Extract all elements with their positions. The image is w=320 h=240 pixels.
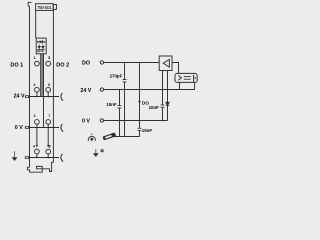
- earth arrow left: [13, 151, 16, 157]
- shield rail: [114, 136, 140, 138]
- svg-text:7: 7: [48, 114, 50, 118]
- diode dots in LED box: [37, 41, 39, 43]
- 24V power line: [29, 96, 59, 98]
- terminal 7 circle: [46, 120, 51, 125]
- LED 2: [41, 46, 45, 49]
- svg-text:10nF: 10nF: [106, 102, 117, 107]
- svg-text:24 V: 24 V: [14, 94, 25, 100]
- label tab: [53, 5, 56, 10]
- svg-text:DO: DO: [82, 61, 90, 67]
- 24V terminal: [100, 88, 103, 91]
- arrow on wire 4: [36, 145, 38, 148]
- earth circle dot: [90, 138, 93, 141]
- earth circle symbol: [88, 136, 95, 141]
- module left edge: [29, 6, 31, 167]
- svg-text:10nF: 10nF: [149, 105, 160, 110]
- legend earth arrow: [95, 149, 98, 153]
- svg-text:270pF: 270pF: [110, 73, 123, 78]
- driver pin right with diode: [167, 71, 169, 121]
- spring contact row2: [61, 93, 63, 101]
- arrow on DO output line: [138, 101, 141, 104]
- svg-text:DO 2: DO 2: [56, 62, 69, 68]
- spring contact row3: [61, 124, 63, 132]
- terminal 8 circle: [46, 149, 51, 154]
- spring contact row4: [61, 154, 63, 162]
- svg-text:4: 4: [33, 145, 35, 149]
- terminal 4 circle: [35, 149, 40, 154]
- LED indicator box: [36, 38, 46, 54]
- diode D1 in LED box: [37, 41, 45, 43]
- earth power line: [29, 157, 59, 159]
- diode triangle: [40, 40, 43, 43]
- LED 1: [37, 46, 41, 49]
- output stage box Q1: [175, 73, 197, 82]
- terminal 2 circle: [35, 87, 40, 92]
- arrow on wire 8: [47, 145, 49, 148]
- svg-text:2: 2: [34, 83, 36, 87]
- capacitor 10nF left line: [119, 90, 121, 137]
- capacitor 10nF bottom: [139, 121, 141, 137]
- terminal 1 circle: [35, 61, 40, 66]
- power jumper blade 3D: [102, 132, 116, 140]
- diode on pin: [166, 102, 169, 105]
- svg-text:0 V: 0 V: [82, 118, 90, 124]
- module right edge: [52, 9, 54, 162]
- svg-text:750-501: 750-501: [37, 5, 52, 10]
- driver pin left with 10nF cap: [162, 71, 164, 121]
- blade contact earth: [25, 156, 29, 159]
- svg-text:6: 6: [48, 83, 50, 87]
- svg-text:0 V: 0 V: [15, 125, 23, 131]
- svg-text:3: 3: [34, 114, 36, 118]
- wires 0V down with arrows: [36, 128, 38, 145]
- svg-text:DO 1: DO 1: [10, 62, 23, 68]
- svg-text:10nF: 10nF: [142, 128, 153, 133]
- svg-text:24 V: 24 V: [80, 88, 91, 94]
- 0V rail: [104, 120, 168, 122]
- bus lines from LED box: [40, 54, 42, 97]
- blade contact 0V: [25, 126, 29, 129]
- capacitor 270pF line: [124, 63, 126, 137]
- output box pins: [179, 82, 181, 89]
- DO output line down: [139, 63, 141, 121]
- right schematic: DO terminal: [100, 61, 103, 64]
- svg-text:5: 5: [48, 56, 50, 60]
- svg-text:1: 1: [34, 56, 36, 60]
- marking label box 750-501: [36, 4, 54, 11]
- module outline top step: [28, 2, 31, 6]
- terminal 6 circle: [46, 87, 51, 92]
- driver box U1: [159, 56, 172, 71]
- junction dots: [36, 96, 38, 98]
- 0V terminal: [100, 119, 103, 122]
- wire driver to output box: [172, 63, 179, 74]
- 0V power line: [29, 127, 59, 129]
- svg-text:8: 8: [49, 145, 51, 149]
- inner vertical line: [35, 10, 37, 38]
- blade contact 24V: [25, 95, 29, 98]
- terminal 3 circle: [35, 120, 40, 125]
- 24V rail: [104, 89, 195, 91]
- legend small circle: [101, 150, 103, 152]
- DO rail: [104, 62, 160, 64]
- terminal 5 circle: [46, 61, 51, 66]
- DIN rail foot: [27, 167, 42, 172]
